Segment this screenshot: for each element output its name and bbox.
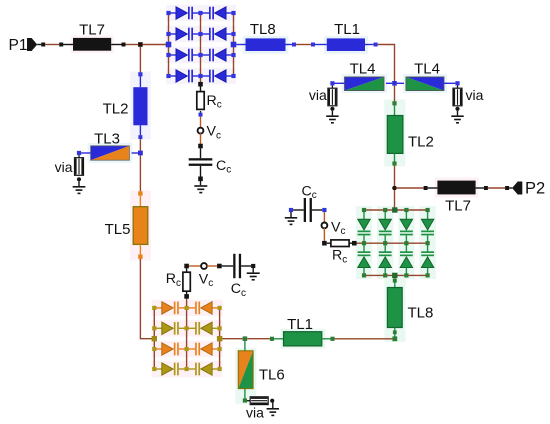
transmission line TL4 (left)	[345, 77, 385, 91]
varactor diode (green array col 2 bottom)	[379, 243, 392, 275]
node	[231, 11, 235, 15]
label Rc	[207, 93, 222, 111]
wire	[323, 212, 325, 223]
node	[231, 53, 235, 57]
wire	[219, 308, 221, 369]
node	[330, 81, 334, 85]
wire	[293, 209, 304, 211]
varactor diode (orange array row 3 right)	[187, 343, 220, 356]
label Cc	[302, 183, 317, 201]
node	[184, 294, 189, 299]
svg-text:TL4: TL4	[350, 60, 376, 77]
label TL8	[250, 21, 276, 38]
node	[138, 255, 142, 259]
wire	[286, 44, 293, 46]
wire	[168, 13, 170, 76]
wire	[335, 338, 393, 340]
ground	[451, 115, 463, 123]
junction node	[138, 42, 143, 47]
node	[426, 273, 430, 277]
varactor diode (blue array row 2 right)	[201, 28, 234, 41]
node	[152, 306, 156, 310]
wire	[139, 139, 141, 151]
wire	[200, 133, 202, 144]
wire	[331, 111, 333, 116]
node	[383, 208, 387, 212]
node	[198, 82, 203, 87]
wire	[186, 268, 188, 272]
wire	[78, 181, 80, 186]
wire	[81, 152, 91, 154]
node Vc	[198, 128, 204, 134]
svg-text:via: via	[55, 159, 73, 175]
node	[218, 306, 222, 310]
resistor Rc	[183, 272, 190, 291]
varactor diode (orange array row 4 left)	[154, 363, 186, 376]
node	[77, 151, 81, 155]
node	[152, 326, 156, 330]
label TL5	[105, 221, 131, 238]
node	[392, 81, 397, 86]
wire	[200, 86, 202, 91]
label TL6	[259, 366, 285, 383]
node	[484, 186, 488, 190]
transmission line TL2 (blue)	[133, 87, 147, 125]
node	[455, 81, 459, 85]
svg-text:TL5: TL5	[105, 221, 131, 238]
node Vc	[322, 223, 328, 229]
node	[198, 32, 202, 36]
wire (corner)	[140, 259, 152, 339]
node	[184, 264, 189, 269]
wire	[394, 86, 396, 102]
svg-text:TL6: TL6	[259, 366, 285, 383]
wire	[207, 265, 218, 267]
node (array feed right)	[217, 336, 222, 341]
node	[362, 208, 366, 212]
node	[217, 264, 222, 269]
varactor diode (blue array row 1 left)	[169, 7, 201, 20]
wire	[394, 105, 396, 115]
svg-text:TL1: TL1	[334, 21, 360, 38]
wire	[132, 152, 139, 154]
wire	[200, 13, 202, 84]
node	[166, 32, 170, 36]
wire	[222, 338, 243, 340]
ground	[194, 185, 207, 193]
wire	[274, 338, 283, 340]
transmission line TL1 (green)	[284, 332, 322, 346]
node	[231, 32, 235, 36]
node	[138, 72, 142, 76]
port P2	[512, 182, 522, 195]
wire	[322, 338, 331, 340]
node	[198, 177, 203, 182]
node	[404, 273, 408, 277]
wire	[200, 111, 202, 128]
label P2	[525, 180, 545, 198]
wire	[139, 125, 141, 135]
node	[138, 135, 142, 139]
wire	[428, 187, 438, 189]
varactor diode (blue array row 3 right)	[201, 49, 234, 62]
capacitor Cc	[304, 198, 312, 222]
label TL7	[445, 198, 471, 215]
node	[166, 74, 170, 78]
varactor diode (orange array row 1 left)	[154, 302, 186, 315]
node	[185, 306, 189, 310]
node	[198, 11, 202, 15]
node	[122, 43, 126, 47]
via pad node	[330, 107, 334, 111]
wire	[394, 153, 396, 161]
label TL4	[350, 60, 376, 77]
wire	[200, 181, 202, 185]
junction	[392, 186, 397, 191]
via	[75, 155, 84, 175]
svg-text:TL4: TL4	[414, 60, 440, 77]
varactor diode (green array col 3 bottom)	[400, 243, 413, 275]
wire	[394, 278, 396, 287]
varactor diode (orange array row 2 left)	[154, 322, 186, 335]
node	[152, 347, 156, 351]
node	[218, 367, 222, 371]
varactor diode (orange array row 2 right)	[187, 322, 220, 335]
node	[393, 330, 397, 334]
wire	[335, 82, 345, 84]
varactor diode (orange array row 3 left)	[154, 343, 186, 356]
varactor diode (green array col 1 top)	[358, 210, 371, 243]
varactor diode (orange array row 4 right)	[187, 363, 220, 376]
node	[404, 241, 408, 245]
label Vc	[207, 124, 221, 142]
node	[426, 241, 430, 245]
svg-text:TL8: TL8	[408, 304, 434, 321]
ground	[247, 272, 260, 280]
svg-text:TL3: TL3	[94, 131, 120, 148]
node	[392, 101, 396, 105]
node	[198, 144, 203, 149]
wire	[394, 328, 396, 337]
label TL1	[287, 316, 313, 333]
node	[198, 74, 202, 78]
wire	[364, 209, 428, 211]
wire	[63, 44, 73, 46]
wire	[241, 265, 251, 267]
varactor diode (green array col 4 top)	[421, 210, 434, 243]
node	[166, 11, 170, 15]
node	[362, 273, 366, 277]
varactor diode (green array col 1 bottom)	[358, 243, 371, 275]
wire	[315, 44, 327, 46]
resistor Rc	[331, 240, 349, 247]
varactor diode (blue array row 4 left)	[169, 70, 201, 83]
label TL1	[334, 21, 360, 38]
transmission line TL4 (right)	[406, 77, 444, 91]
svg-text:via: via	[246, 405, 264, 421]
via pad node	[77, 177, 81, 181]
wire	[247, 338, 270, 340]
transmission line TL3	[91, 146, 130, 160]
varactor diode (blue array row 2 left)	[169, 28, 201, 41]
varactor diode (blue array row 1 right)	[201, 7, 234, 20]
wire	[244, 341, 246, 351]
label via	[246, 405, 264, 421]
wire	[394, 190, 396, 208]
node	[185, 367, 189, 371]
wire	[139, 196, 141, 207]
wire	[244, 389, 246, 399]
node	[292, 43, 296, 47]
node (corner junction)	[392, 336, 397, 341]
label via	[466, 87, 484, 103]
wire	[189, 265, 202, 267]
wire	[139, 76, 141, 87]
wire	[349, 242, 352, 244]
wire	[200, 148, 202, 158]
resistor Rc	[197, 92, 204, 110]
wire	[272, 402, 274, 408]
node	[505, 186, 509, 190]
capacitor Cc	[189, 158, 213, 166]
node	[383, 241, 387, 245]
label Rc	[332, 248, 347, 266]
ground	[285, 212, 297, 225]
node	[231, 74, 235, 78]
varactor diode (green array col 4 bottom)	[421, 243, 434, 275]
svg-text:TL7: TL7	[79, 21, 105, 38]
label TL7	[79, 21, 105, 38]
node	[251, 264, 255, 268]
via pad node	[270, 399, 274, 403]
node	[185, 347, 189, 351]
node	[185, 326, 189, 330]
junction node	[243, 336, 248, 341]
varactor diode (blue array row 3 left)	[169, 49, 201, 62]
node	[152, 367, 156, 371]
wire	[397, 82, 404, 84]
label Rc	[166, 271, 181, 289]
wire	[386, 82, 392, 84]
transmission line TL1	[327, 38, 365, 51]
node	[426, 208, 430, 212]
node	[392, 161, 396, 165]
wire	[126, 44, 139, 46]
ground	[326, 115, 338, 123]
transmission line TL8 (green)	[387, 288, 402, 328]
svg-text:via: via	[466, 87, 484, 103]
via (horizontal)	[247, 397, 268, 405]
node	[383, 273, 387, 277]
transmission line TL7	[73, 38, 111, 51]
node	[311, 43, 315, 47]
wire	[222, 265, 234, 267]
via pad node	[455, 107, 459, 111]
node	[218, 347, 222, 351]
node	[330, 337, 334, 341]
wire	[236, 44, 245, 46]
junction node	[138, 151, 143, 156]
node	[59, 43, 63, 47]
label Vc	[331, 219, 345, 237]
label P1	[9, 37, 28, 54]
node	[243, 398, 247, 402]
wire	[476, 187, 484, 189]
varactor diode (blue array row 4 right)	[201, 70, 234, 83]
node	[352, 241, 357, 246]
wire	[364, 274, 428, 276]
transmission line TL8	[246, 38, 286, 51]
wire	[365, 44, 374, 46]
wire	[200, 166, 202, 177]
wire	[252, 268, 254, 272]
wire (corner)	[378, 45, 395, 82]
label Cc	[216, 158, 231, 176]
wire	[153, 308, 155, 369]
varactor diode (green array col 3 top)	[400, 210, 413, 243]
wire	[111, 44, 121, 46]
label TL4	[414, 60, 440, 77]
node	[393, 279, 397, 283]
wire	[357, 242, 428, 244]
node	[289, 208, 293, 212]
node	[270, 337, 274, 341]
wire	[488, 187, 505, 189]
node	[404, 208, 408, 212]
wire	[394, 166, 396, 186]
node	[198, 53, 202, 57]
capacitor Cc	[233, 254, 241, 278]
node	[166, 53, 170, 57]
node	[424, 186, 428, 190]
svg-text:P2: P2	[525, 180, 545, 198]
svg-text:TL2: TL2	[408, 133, 434, 150]
svg-text:TL1: TL1	[287, 316, 313, 333]
transmission line TL5	[133, 207, 148, 245]
svg-text:TL7: TL7	[445, 198, 471, 215]
wire	[397, 187, 424, 189]
node (array feed right)	[231, 42, 237, 48]
wire	[186, 299, 188, 369]
label via	[309, 87, 327, 103]
node	[362, 241, 366, 245]
node (array feed left)	[166, 42, 172, 48]
wire	[139, 244, 141, 254]
svg-text:TL2: TL2	[103, 100, 129, 117]
label via	[55, 159, 73, 175]
port P1	[27, 38, 41, 51]
wire	[186, 291, 188, 294]
ground	[73, 186, 86, 194]
label Vc	[199, 271, 213, 289]
node	[322, 208, 326, 212]
via	[453, 85, 462, 105]
wire	[327, 242, 331, 244]
wire	[139, 47, 141, 72]
svg-text:P1: P1	[9, 37, 28, 54]
node	[374, 43, 378, 47]
transmission line TL6	[238, 351, 253, 389]
node	[218, 326, 222, 330]
node (array feed top)	[392, 207, 397, 212]
node	[138, 191, 142, 195]
node	[199, 113, 203, 117]
node (array feed bottom)	[392, 273, 397, 278]
transmission line TL7 (right)	[437, 181, 475, 195]
wire	[296, 44, 311, 46]
label TL8	[408, 304, 434, 321]
wire	[233, 13, 235, 76]
node	[322, 241, 327, 246]
varactor diode (orange array row 1 right)	[187, 302, 220, 315]
label TL2	[103, 100, 129, 117]
svg-text:TL8: TL8	[250, 21, 276, 38]
label Cc	[231, 281, 246, 299]
wire	[45, 44, 59, 46]
wire	[143, 44, 166, 46]
svg-text:via: via	[309, 87, 327, 103]
wire	[323, 228, 325, 241]
wire	[444, 82, 455, 84]
transmission line TL2 (green)	[387, 116, 403, 154]
wire	[139, 155, 141, 191]
ground	[267, 408, 279, 416]
node	[41, 43, 45, 47]
label TL3	[94, 131, 120, 148]
wire	[312, 209, 322, 211]
wire	[457, 111, 459, 116]
varactor diode (green array col 2 top)	[379, 210, 392, 243]
node (array feed left)	[152, 336, 157, 341]
label TL2	[408, 133, 434, 150]
node Vc	[201, 263, 207, 269]
wire	[509, 187, 512, 189]
via	[328, 85, 337, 105]
